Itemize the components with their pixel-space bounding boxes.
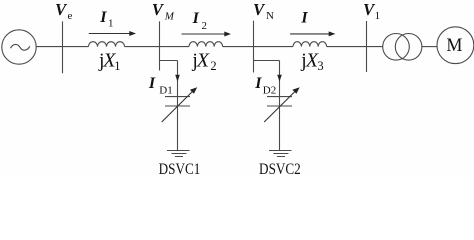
DSVC2 variable diagonal arrow <box>264 90 296 122</box>
sine wave inside source <box>11 44 30 50</box>
svg-text:DSVC2: DSVC2 <box>259 161 301 178</box>
arrowhead DSVC1 diagonal <box>190 87 197 94</box>
wire DSVC1 vertical <box>177 61 179 151</box>
svg-text:I: I <box>300 10 308 27</box>
inductor jX2 coil <box>189 42 223 47</box>
svg-text:2: 2 <box>202 20 208 32</box>
svg-text:V: V <box>55 0 68 19</box>
node VM bus bar <box>159 21 161 70</box>
svg-text:M: M <box>164 11 175 23</box>
svg-text:X: X <box>196 50 210 72</box>
wire coil1 to coil2 <box>125 46 190 48</box>
svg-text:I: I <box>99 9 107 26</box>
current arrow I <box>290 33 330 35</box>
arrowhead ID1 down <box>175 75 180 82</box>
arrowhead I <box>329 31 336 36</box>
svg-text:I: I <box>254 75 262 92</box>
DSVC2 reactor plates <box>267 97 292 106</box>
wire VN branch jog <box>254 60 280 62</box>
wire DSVC2 vertical <box>279 61 281 151</box>
svg-text:I: I <box>148 75 156 92</box>
svg-text:1: 1 <box>114 59 120 73</box>
current arrow I1 <box>89 33 131 35</box>
svg-text:DSVC1: DSVC1 <box>159 161 201 178</box>
svg-text:V: V <box>253 0 266 19</box>
inductor jX1 coil <box>89 42 125 47</box>
DSVC1 reactor plates <box>165 97 190 106</box>
svg-text:D2: D2 <box>263 85 276 97</box>
svg-text:1: 1 <box>375 10 381 22</box>
svg-text:2: 2 <box>210 59 216 73</box>
arrowhead ID2 down <box>277 75 282 82</box>
transformer T1 <box>383 34 410 61</box>
ground DSVC1 <box>167 151 190 157</box>
svg-text:3: 3 <box>317 59 323 73</box>
ground DSVC2 <box>269 151 292 157</box>
arrowhead I1 <box>129 31 136 36</box>
wire VM branch jog <box>160 60 178 62</box>
arrowhead I2 <box>224 32 231 37</box>
svg-text:D1: D1 <box>159 85 172 97</box>
svg-text:1: 1 <box>108 18 114 30</box>
wire source to coil1 <box>36 46 88 48</box>
svg-text:N: N <box>266 10 274 22</box>
DSVC1 variable diagonal arrow <box>162 90 194 122</box>
motor M circle <box>437 27 474 64</box>
inductor jX3 coil <box>293 42 327 47</box>
svg-text:e: e <box>68 10 73 22</box>
wire coil3 to transformer <box>327 46 383 48</box>
node Ve bus bar <box>62 21 64 73</box>
AC source G <box>2 30 36 64</box>
wire transformer to motor <box>422 46 437 48</box>
node VN bus bar <box>253 21 255 73</box>
arrowhead DSVC2 diagonal <box>292 87 299 94</box>
svg-text:I: I <box>192 10 200 27</box>
current arrow I2 <box>182 33 227 35</box>
node V1 bus bar <box>366 21 368 72</box>
svg-text:V: V <box>152 0 165 19</box>
wire coil2 to coil3 <box>223 46 293 48</box>
svg-text:M: M <box>446 35 462 57</box>
